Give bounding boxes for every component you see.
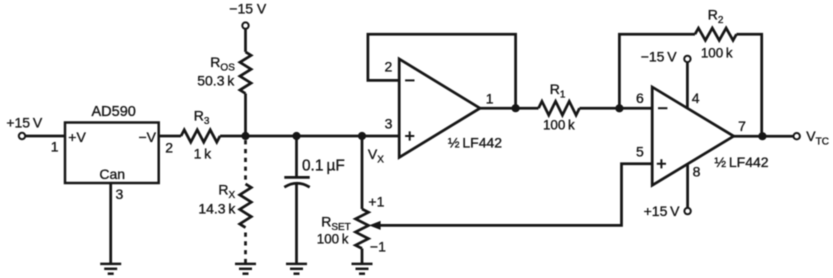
svg-text:8: 8	[693, 163, 701, 179]
svg-text:RSET: RSET	[321, 214, 351, 233]
svg-text:+1: +1	[368, 193, 384, 209]
svg-text:0.1 µF: 0.1 µF	[302, 157, 345, 174]
svg-text:R2: R2	[708, 7, 724, 26]
svg-text:+15 V: +15 V	[6, 114, 43, 130]
svg-text:½ LF442: ½ LF442	[714, 154, 768, 170]
svg-text:−15 V: −15 V	[229, 1, 267, 17]
svg-text:100 k: 100 k	[317, 232, 349, 247]
svg-text:VX: VX	[368, 146, 384, 165]
svg-text:1: 1	[51, 139, 59, 155]
svg-text:50.3 k: 50.3 k	[197, 73, 235, 89]
svg-text:6: 6	[636, 90, 644, 106]
svg-text:½ LF442: ½ LF442	[448, 135, 502, 151]
svg-text:−V: −V	[138, 129, 156, 145]
svg-text:5: 5	[636, 144, 644, 160]
svg-text:−15 V: −15 V	[641, 48, 678, 64]
svg-text:−1: −1	[370, 239, 386, 255]
svg-text:3: 3	[116, 186, 124, 202]
svg-text:VTC: VTC	[806, 128, 829, 147]
svg-text:2: 2	[165, 140, 173, 156]
svg-text:R1: R1	[550, 81, 566, 100]
svg-text:3: 3	[385, 115, 393, 131]
svg-text:AD590: AD590	[92, 104, 136, 120]
svg-text:1: 1	[486, 90, 494, 106]
svg-text:2: 2	[385, 59, 393, 75]
svg-text:7: 7	[738, 118, 746, 134]
svg-text:4: 4	[692, 90, 700, 106]
svg-text:RX: RX	[218, 182, 235, 201]
svg-text:R3: R3	[194, 108, 210, 127]
svg-text:100 k: 100 k	[543, 117, 575, 132]
svg-text:ROS: ROS	[210, 54, 235, 73]
svg-text:100 k: 100 k	[701, 46, 733, 61]
svg-text:Can: Can	[99, 166, 125, 182]
svg-text:+15 V: +15 V	[644, 203, 681, 219]
svg-text:1 k: 1 k	[194, 146, 213, 162]
svg-text:+V: +V	[68, 129, 86, 145]
svg-text:14.3 k: 14.3 k	[198, 201, 236, 217]
